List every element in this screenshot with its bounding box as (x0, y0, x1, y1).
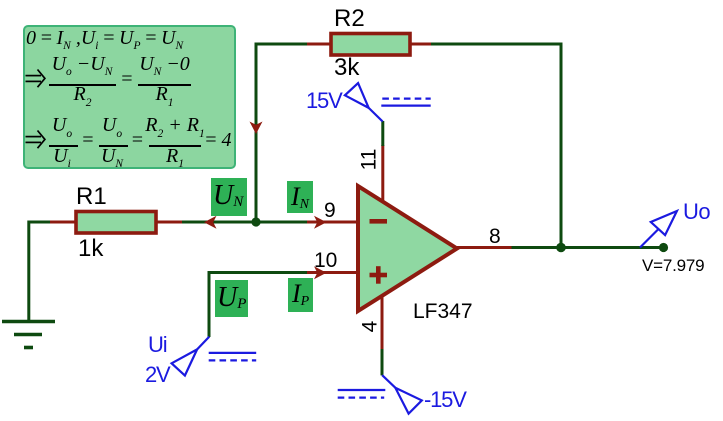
equation line 3 equals 1 (81, 130, 95, 150)
pin label 4 (rotated) (360, 321, 381, 333)
node label U_P (215, 280, 248, 317)
pin label 11 (rotated) (359, 148, 380, 172)
equation line 2 fraction 1: (Uo - UN) / R2 (52, 54, 113, 74)
label 15V (306, 90, 342, 112)
voltage readout V=7.979 (642, 257, 704, 274)
current arrow I_N (right) into pin 9 (314, 216, 327, 229)
equation line 3 result (204, 130, 232, 150)
equation line 3 equals 2 (131, 130, 145, 150)
pin label 10 (314, 250, 337, 271)
equation line 3 fraction 2: Uo / UN (102, 115, 122, 135)
wire: pin 11 to VCC (green) (381, 121, 384, 146)
wire: pin 4 to VEE (green) (381, 349, 384, 375)
output terminal node (659, 243, 668, 252)
equation text line 1 (26, 28, 183, 48)
wire: top feedback horizontal (left green segment) (255, 43, 308, 46)
resistor R1 (49, 212, 182, 234)
VEE supply -15V symbol (338, 375, 422, 413)
wire: inverting input row (green) (182, 221, 307, 224)
label LF347 (413, 301, 473, 322)
label Ui (148, 334, 166, 356)
wire: output row (green) (512, 246, 664, 249)
wire: right vertical from feedback to output (560, 43, 563, 248)
wire: R1 left corner to ground drop (29, 222, 50, 321)
junction node on output (556, 243, 566, 253)
equation line 2 equals (120, 69, 134, 89)
pin 9 lead (red) (307, 221, 359, 224)
pin 4 lead (red) (381, 296, 384, 350)
op-amp U1 LF347 triangle (358, 186, 457, 311)
probe Uo arrow (640, 211, 677, 248)
resistor R2 (307, 34, 431, 56)
junction node at inverting input (251, 217, 260, 226)
label -15V (424, 389, 466, 411)
wire: left vertical feedback drop (255, 43, 258, 223)
implies arrow line 3 (26, 131, 45, 149)
node label I_N (287, 181, 313, 213)
value 3k (334, 56, 359, 80)
ground (2, 322, 55, 348)
label R1 (76, 185, 107, 209)
pin label 8 (489, 226, 501, 247)
value 1k (78, 237, 103, 261)
source Ui 2V symbol (172, 337, 257, 376)
wire: non-inverting input row (green) (209, 273, 307, 338)
equation line 2 fraction 2: (UN - 0) / R1 (139, 54, 190, 74)
implies arrow line 2 (26, 70, 45, 88)
current arrow I_P (right) into pin 10 (314, 266, 327, 279)
value 2V (145, 364, 170, 386)
pin 8 output lead (red) (457, 246, 512, 249)
equation note box (23, 25, 236, 169)
VCC supply 15V symbol (345, 83, 431, 121)
current arrow (down) on feedback drop (250, 122, 263, 135)
pin label 9 (324, 200, 336, 221)
label Uo (683, 201, 710, 223)
equation line 3 fraction 1: Uo / Ui (52, 115, 72, 135)
pin 11 lead (red) (381, 145, 384, 202)
node label I_P (288, 278, 313, 312)
current arrow (left) toward R1 (204, 216, 217, 229)
pin 10 lead (red) (307, 271, 359, 274)
label R2 (334, 7, 365, 31)
equation line 3 fraction 3: (R2+R1) / R1 (145, 115, 204, 135)
wire: top feedback horizontal (right green segment) (431, 43, 563, 46)
node label U_N (211, 178, 247, 216)
